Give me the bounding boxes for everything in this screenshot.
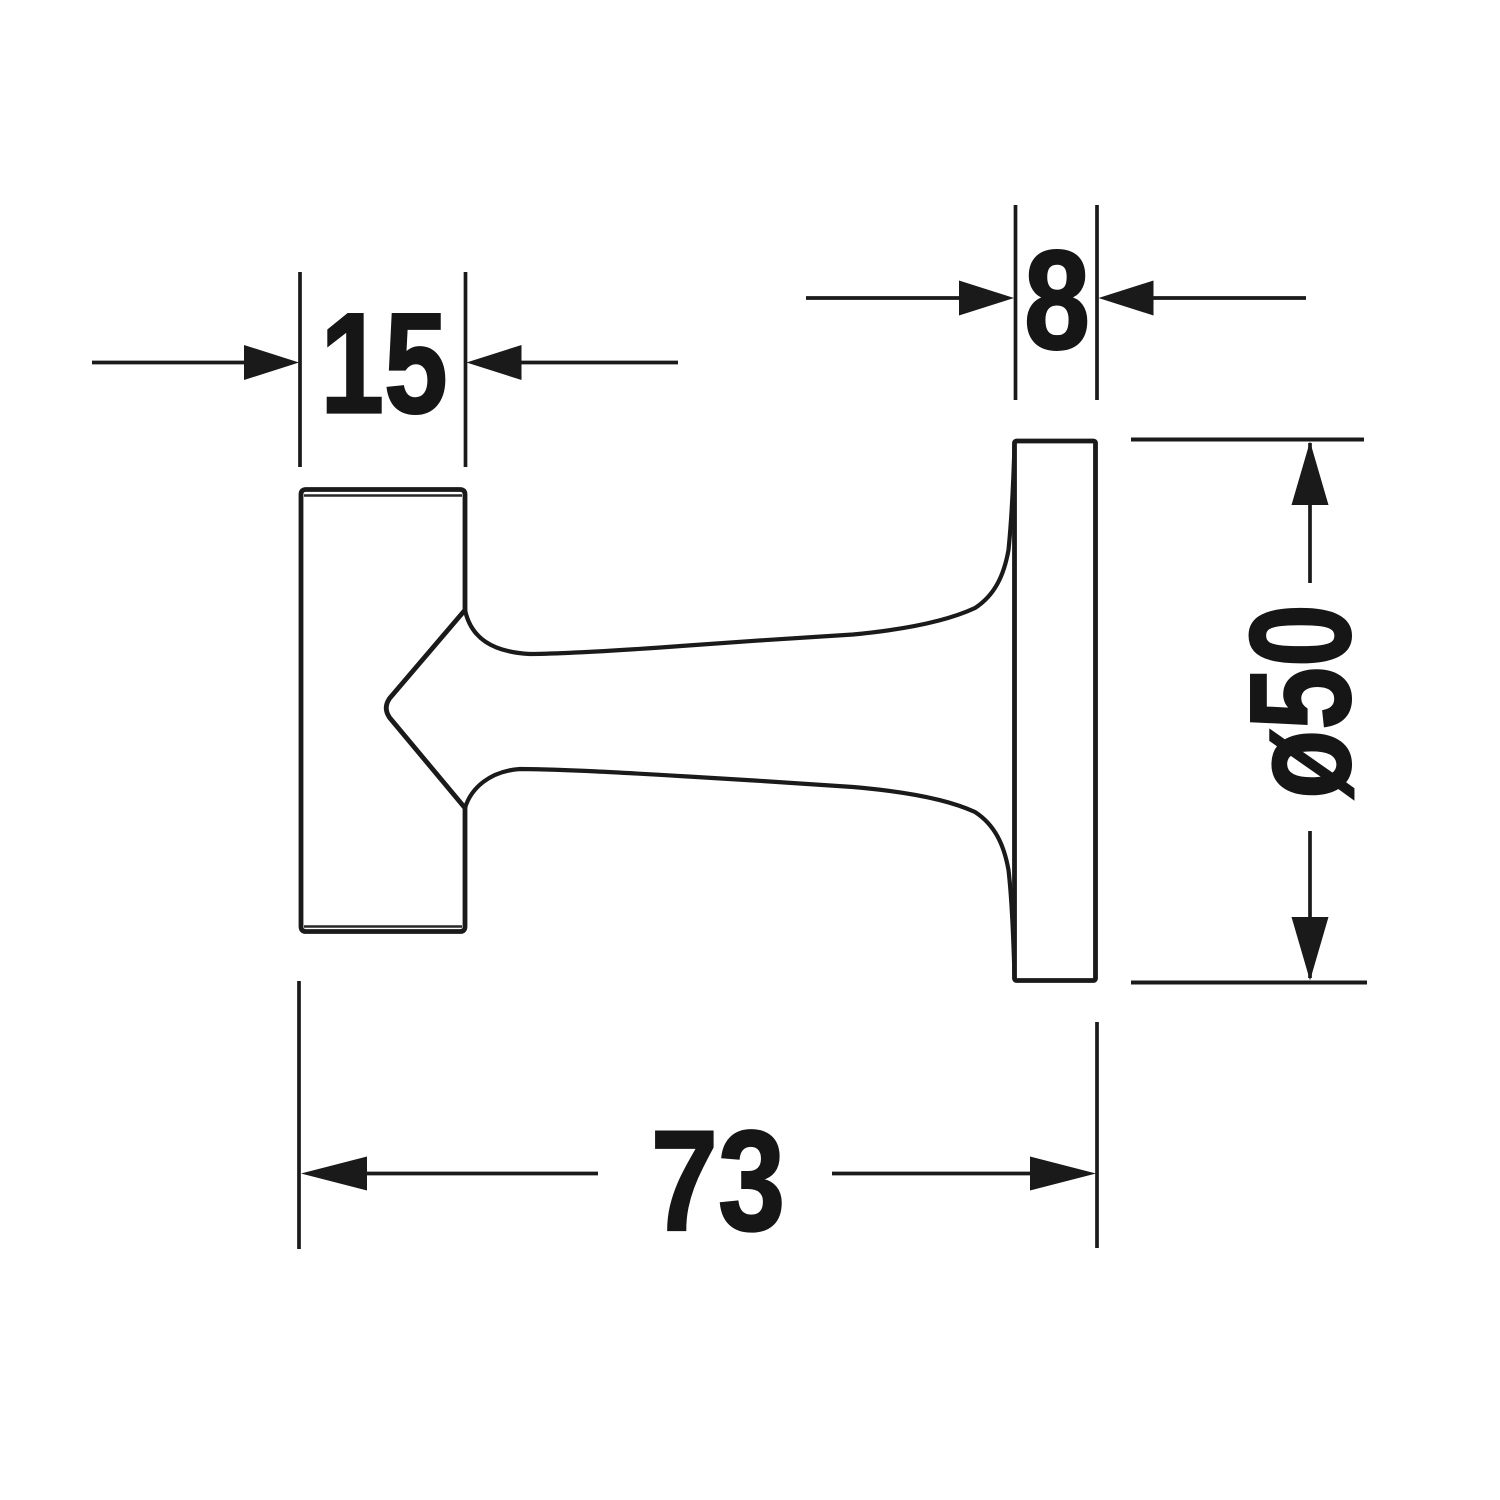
svg-text:8: 8 <box>1024 221 1090 379</box>
svg-text:15: 15 <box>320 284 447 443</box>
svg-text:ø50: ø50 <box>1221 604 1381 799</box>
svg-text:73: 73 <box>651 1101 785 1261</box>
